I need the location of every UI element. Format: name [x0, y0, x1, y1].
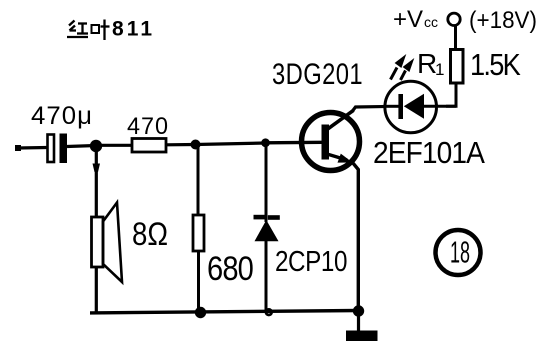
svg-text:18: 18 [450, 235, 470, 270]
resistor 680 [193, 215, 253, 288]
svg-text:(+18V): (+18V) [469, 7, 537, 34]
resistor R1 1.5K [451, 47, 522, 83]
svg-text:680: 680 [207, 250, 253, 288]
svg-text:470μ: 470μ [31, 102, 93, 130]
node C [261, 138, 270, 147]
wire diode to bottom rail [265, 241, 268, 312]
wire node B to node C [196, 143, 266, 145]
svg-text:811: 811 [112, 18, 152, 41]
wire node C to transistor base [266, 141, 324, 145]
wire collector to LED [353, 107, 387, 112]
node bottom of diode [265, 308, 273, 316]
svg-text:cc: cc [424, 14, 438, 30]
wire input to capacitor [18, 146, 47, 150]
speaker BL 8ohm [92, 203, 169, 283]
wire resistor R1 to Vcc terminal [454, 26, 457, 50]
node A [90, 140, 102, 152]
wire resistor 470 to node B [166, 143, 195, 147]
hanzi 叶 [92, 25, 100, 33]
page number 18 [436, 230, 481, 275]
svg-text:470: 470 [127, 113, 169, 140]
bottom ground rail wire [90, 311, 359, 313]
node ground junction [353, 305, 364, 316]
hanzi 红 [69, 21, 75, 26]
wire resistor 680 to bottom rail [197, 251, 200, 313]
wire to ground symbol [357, 311, 360, 331]
capacitor C1 470u [31, 102, 93, 163]
transistor Q1 3DG201 [272, 58, 363, 171]
wire LED to resistor R1 [446, 83, 456, 106]
wire node C down to diode [265, 143, 268, 222]
wire node B down to resistor 680 [197, 145, 200, 216]
light arrow 1 [391, 68, 398, 80]
input terminal [15, 145, 21, 151]
LED D1 2EF101A [373, 48, 485, 170]
svg-text:3DG201: 3DG201 [272, 58, 363, 91]
light arrow 2 [401, 71, 406, 81]
diode 2CP10 [254, 215, 348, 278]
svg-text:+V: +V [393, 6, 423, 33]
Vcc terminal [448, 13, 460, 25]
wire emitter down to ground rail [353, 163, 359, 312]
node B [191, 140, 201, 150]
wire speaker to bottom rail [95, 267, 98, 313]
resistor 470 [127, 113, 169, 152]
svg-text:2CP10: 2CP10 [275, 246, 347, 278]
svg-text:1: 1 [435, 60, 444, 79]
wire node A to resistor 470 [96, 144, 132, 147]
svg-text:8Ω: 8Ω [132, 216, 168, 252]
svg-text:2EF101A: 2EF101A [373, 135, 485, 170]
wire capacitor to node A [67, 146, 96, 147]
wire node A down to speaker [95, 146, 98, 217]
node bottom of 680 [195, 307, 206, 318]
ground [346, 331, 378, 342]
title 红叶811 [67, 20, 110, 41]
svg-text:1.5K: 1.5K [470, 47, 521, 82]
